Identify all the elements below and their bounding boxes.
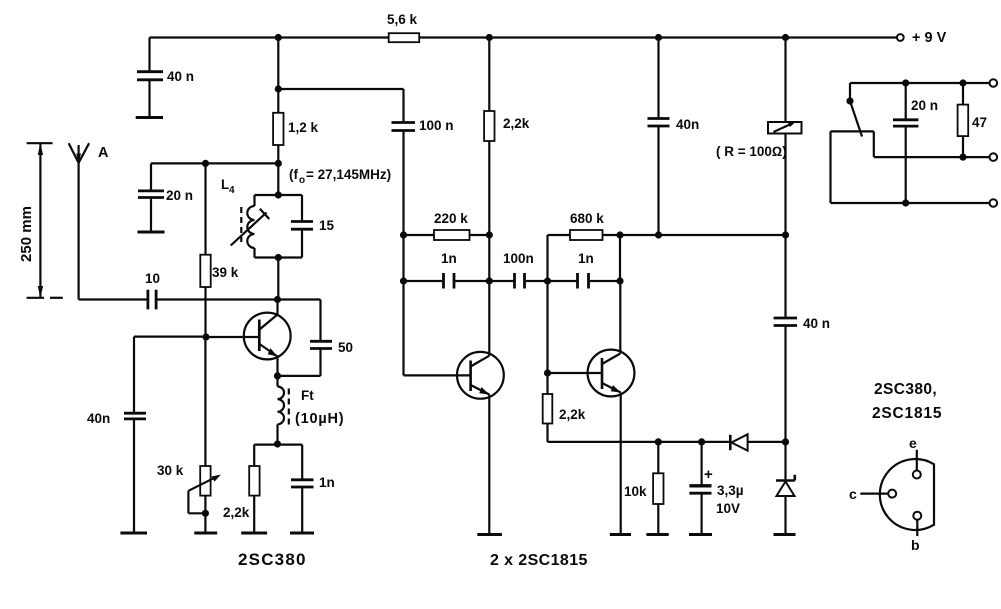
svg-text:L: L bbox=[221, 177, 229, 192]
svg-text:15: 15 bbox=[319, 218, 335, 233]
svg-text:1n: 1n bbox=[441, 251, 457, 266]
svg-text:Ft: Ft bbox=[301, 388, 314, 403]
svg-text:+: + bbox=[704, 466, 713, 483]
svg-text:20 n: 20 n bbox=[911, 98, 938, 113]
svg-text:2SC380: 2SC380 bbox=[238, 550, 307, 569]
svg-text:40 n: 40 n bbox=[167, 69, 194, 84]
svg-text:40n: 40n bbox=[87, 411, 110, 426]
svg-text:4: 4 bbox=[229, 185, 235, 196]
svg-text:220 k: 220 k bbox=[434, 211, 468, 226]
svg-text:680 k: 680 k bbox=[570, 211, 604, 226]
svg-text:o: o bbox=[299, 175, 305, 186]
svg-text:10k: 10k bbox=[624, 484, 647, 499]
svg-text:50: 50 bbox=[338, 340, 353, 355]
svg-text:1,2 k: 1,2 k bbox=[288, 120, 319, 135]
svg-text:20 n: 20 n bbox=[166, 188, 193, 203]
svg-text:1n: 1n bbox=[578, 251, 594, 266]
svg-text:= 27,145MHz): = 27,145MHz) bbox=[306, 167, 391, 182]
svg-text:( R = 100Ω): ( R = 100Ω) bbox=[716, 144, 787, 159]
svg-text:250 mm: 250 mm bbox=[18, 206, 35, 262]
svg-text:2,2k: 2,2k bbox=[503, 116, 530, 131]
svg-text:39 k: 39 k bbox=[212, 265, 239, 280]
svg-text:10: 10 bbox=[145, 271, 160, 286]
svg-text:2 x 2SC1815: 2 x 2SC1815 bbox=[490, 552, 588, 569]
svg-text:40 n: 40 n bbox=[803, 316, 830, 331]
svg-text:+ 9 V: + 9 V bbox=[912, 30, 947, 46]
svg-text:1n: 1n bbox=[319, 475, 335, 490]
svg-text:A: A bbox=[98, 145, 109, 161]
svg-text:100 n: 100 n bbox=[419, 118, 454, 133]
svg-text:30 k: 30 k bbox=[157, 463, 184, 478]
svg-text:2,2k: 2,2k bbox=[559, 407, 586, 422]
svg-text:e: e bbox=[909, 435, 917, 451]
svg-text:(10µH): (10µH) bbox=[295, 411, 344, 427]
svg-text:2,2k: 2,2k bbox=[223, 505, 250, 520]
svg-text:b: b bbox=[911, 537, 920, 553]
svg-text:5,6 k: 5,6 k bbox=[387, 12, 418, 27]
svg-text:3,3µ: 3,3µ bbox=[717, 483, 744, 498]
svg-text:c: c bbox=[849, 486, 857, 502]
svg-text:100n: 100n bbox=[503, 251, 534, 266]
svg-text:(f: (f bbox=[289, 167, 298, 182]
svg-text:2SC1815: 2SC1815 bbox=[872, 405, 942, 422]
svg-text:40n: 40n bbox=[676, 117, 699, 132]
svg-text:2SC380,: 2SC380, bbox=[874, 381, 937, 398]
svg-text:47: 47 bbox=[972, 115, 987, 130]
svg-text:10V: 10V bbox=[716, 501, 740, 516]
